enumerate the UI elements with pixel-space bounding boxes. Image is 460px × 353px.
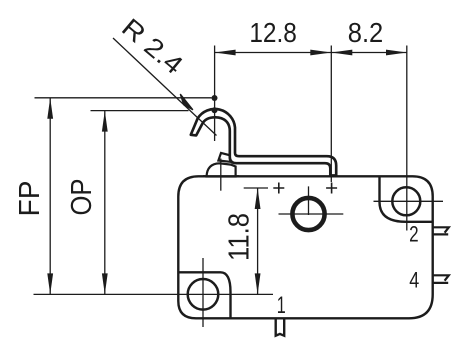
- node dot FP: [212, 95, 218, 101]
- bottom-left mounting boss: [178, 272, 230, 318]
- extension line E2 (lever end): [330, 46, 332, 183]
- body top edge through dome: [203, 175, 239, 177]
- hinge dome boss on body top: [207, 163, 236, 176]
- leader line R2.4: [113, 38, 217, 136]
- terminal 4 tab (right lower): [433, 275, 449, 283]
- 11.8 top reference line: [244, 187, 268, 189]
- central hole crosshair: [279, 186, 344, 215]
- leader arrowhead: [181, 95, 193, 110]
- top-right mounting hole: [392, 187, 420, 215]
- top-right hole crosshair: [374, 200, 444, 202]
- OP top reference line: [91, 110, 189, 112]
- svg-text:1: 1: [277, 292, 286, 319]
- arrow 8.2 right: [386, 50, 407, 56]
- svg-text:4: 4: [409, 267, 419, 292]
- node dot OP: [212, 107, 218, 113]
- FP top reference line: [35, 97, 212, 99]
- hinge clip: [218, 153, 230, 162]
- switch body outline: [178, 176, 432, 318]
- hinge centerline: [220, 159, 222, 191]
- extension line E3 / hole centerline: [406, 46, 408, 231]
- top-right mounting boss: [380, 177, 433, 222]
- svg-text:8.2: 8.2: [348, 17, 384, 48]
- svg-text:FP: FP: [14, 181, 46, 217]
- cross mark left: [273, 183, 284, 194]
- FP/OP/11.8 bottom reference line: [34, 293, 274, 295]
- FP dimension line: [49, 98, 51, 295]
- extension line E1 (hook point): [214, 46, 216, 142]
- dimension line top (12.8 / 8.2): [215, 52, 407, 54]
- arrow 12.8 right: [310, 50, 331, 56]
- svg-text:OP: OP: [66, 179, 98, 216]
- bottom-left hole crosshair vertical: [202, 258, 204, 327]
- svg-text:11.8: 11.8: [224, 213, 256, 261]
- bottom-left mounting hole: [188, 279, 219, 310]
- OP dimension line: [104, 111, 106, 295]
- arrow 12.8 left: [215, 50, 236, 56]
- 11.8 dimension line: [257, 188, 259, 294]
- central plunger hole: [292, 198, 324, 230]
- cross mark right (lever end): [326, 183, 337, 194]
- arrow 8.2 left: [331, 50, 352, 56]
- terminal 2 tab (right upper): [433, 227, 449, 234]
- svg-text:12.8: 12.8: [249, 17, 297, 48]
- svg-text:2: 2: [409, 222, 419, 247]
- terminal 1 tab (bottom): [276, 319, 285, 336]
- lever arm with hook: [191, 109, 336, 175]
